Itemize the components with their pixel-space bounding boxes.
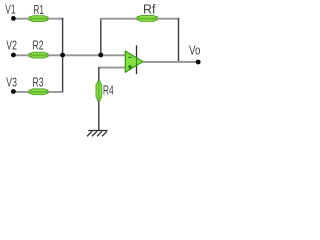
resistor R1 [29, 16, 48, 22]
svg-text:R2: R2 [33, 38, 44, 53]
resistor R3 [29, 89, 48, 95]
node V1 terminal dot [11, 16, 16, 21]
node Vo terminal dot [196, 60, 201, 65]
wire V2 input row to op-amp inverting input [13, 54, 125, 56]
wire feedback right vertical to output [178, 18, 180, 62]
wire op-amp non-inverting input [99, 67, 126, 69]
op-amp power stub bottom [136, 65, 138, 74]
resistor R4 [96, 81, 102, 100]
wire feedback vertical from inverting node [100, 18, 102, 55]
svg-text:V3: V3 [6, 74, 17, 89]
wire V3 input row [13, 91, 63, 93]
junction feedback with inverting input [98, 53, 103, 58]
wire summing bus vertical [62, 18, 64, 92]
op-amp U1 [125, 51, 143, 72]
ground [87, 131, 108, 137]
svg-text:Vo: Vo [189, 43, 200, 58]
op-amp power stub top [136, 45, 138, 58]
op-amp plus mark [128, 65, 132, 69]
junction bus with V2 row [60, 53, 65, 58]
op-amp pin line inside [136, 57, 138, 67]
node V2 terminal dot [11, 53, 16, 58]
svg-text:V2: V2 [6, 38, 17, 53]
svg-text:R4: R4 [103, 82, 114, 97]
node V3 terminal dot [11, 89, 16, 94]
wire V1 input row [13, 18, 63, 20]
svg-text:Rf: Rf [143, 2, 156, 17]
resistor Rf [137, 16, 157, 22]
op-amp minus mark [128, 56, 132, 58]
svg-text:R3: R3 [33, 74, 44, 89]
resistor R2 [29, 52, 48, 58]
wire R4 vertical to ground [98, 67, 100, 130]
wire op-amp output to Vo [143, 61, 198, 63]
svg-text:V1: V1 [5, 2, 15, 17]
wire feedback top horizontal through Rf [100, 18, 179, 20]
svg-text:R1: R1 [34, 2, 44, 17]
